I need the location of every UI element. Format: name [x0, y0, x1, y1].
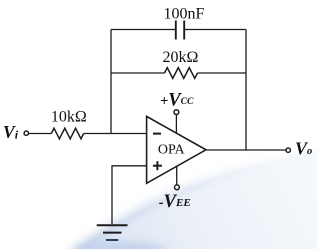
svg-text:Vo: Vo [295, 139, 312, 159]
resistor R2 zigzag [165, 68, 198, 79]
power +VCC stub [175, 114, 177, 133]
ground [97, 225, 128, 240]
wire non-inverting input to ground riser [112, 166, 147, 225]
svg-text:20kΩ: 20kΩ [163, 49, 199, 66]
svg-text:Vi: Vi [3, 122, 19, 142]
wire feedback right vertical [245, 30, 247, 151]
power -VEE terminal circle [175, 185, 180, 190]
node Vo terminal circle [286, 148, 290, 152]
wire input from Vi terminal to resistor [29, 133, 52, 135]
wire resistor branch right [198, 72, 247, 74]
node Vi terminal circle [24, 131, 28, 135]
op-amp U1 triangle [147, 116, 206, 183]
capacitor C1 plates [176, 21, 184, 40]
svg-text:100nF: 100nF [164, 6, 205, 23]
power -VEE stub [176, 167, 178, 186]
power +VCC terminal circle [174, 110, 179, 115]
op-amp inverting input minus sign [153, 133, 161, 135]
wire top capacitor branch left [111, 29, 175, 31]
svg-text:10kΩ: 10kΩ [51, 109, 87, 126]
wire feedback left vertical [110, 30, 112, 134]
wire input resistor to op-amp [84, 133, 147, 135]
wire top capacitor branch right [185, 29, 246, 31]
wire resistor branch left [111, 72, 165, 74]
svg-text:OPA: OPA [158, 143, 186, 158]
wire output [206, 149, 286, 151]
svg-text:+VCC: +VCC [160, 91, 194, 111]
resistor R1 zigzag [51, 128, 83, 139]
op-amp non-inverting input plus sign [153, 165, 162, 167]
background wave (decorative) [70, 149, 319, 249]
